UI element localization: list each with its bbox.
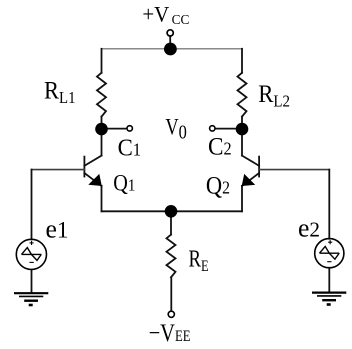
wire node C2 to collector Q2 [241,129,243,156]
node junction dot +Vcc rail [164,43,177,56]
wire right vertical: rail to RL2 [241,49,243,73]
label +Vcc [142,2,189,27]
label C1 [118,135,142,162]
transistor Q1 emitter diagonal [84,173,101,186]
transistor Q2 collector diagonal [242,156,259,166]
terminal circle C2 [210,126,215,131]
label Q2 [206,173,230,200]
label C2 [208,133,232,161]
transistor Q1 base bar [83,157,85,177]
resistor RL2 [238,73,247,117]
label RE [189,245,209,275]
svg-text:+VCC: +VCC [142,2,189,27]
svg-text:e2: e2 [298,213,320,242]
svg-text:C1: C1 [118,135,142,162]
wire RL2 to node C2 [241,117,243,129]
node junction dot emitter rail [165,205,178,218]
transistor Q1 collector diagonal [84,156,101,166]
terminal circle +Vcc [167,30,173,36]
resistor RL1 [97,73,106,117]
resistor RE [167,235,176,278]
svg-text:RE: RE [189,245,209,275]
svg-text:V0: V0 [165,114,186,144]
terminal circle C1 [127,126,132,131]
svg-text:RL1: RL1 [44,77,76,107]
svg-text:RL2: RL2 [258,81,290,111]
label RL2 [258,81,290,111]
wire Q2 emitter down [241,186,243,212]
source e2 [315,239,344,268]
label e1 [46,214,69,243]
svg-text:−VEE: −VEE [149,319,191,346]
wire top horizontal rail [102,48,243,50]
wire e1 to ground [31,270,33,293]
wire bottom horizontal rail [102,210,243,212]
wire Q1 emitter down [101,186,103,212]
wire C2 output stub [215,128,242,130]
wire Q2 base lead [259,169,329,171]
transistor Q2 emitter arrow [242,174,256,186]
ground e1 [14,293,48,305]
wire Q1 base lead [32,169,85,171]
wire left vertical: rail to RL1 [101,49,103,73]
svg-text:e1: e1 [46,214,69,243]
wire bottom node to RE [170,211,172,234]
wire node C1 to collector Q1 [101,129,103,156]
transistor Q2 base bar [258,157,260,177]
svg-text:C2: C2 [208,133,232,161]
label RL1 [44,77,76,107]
wire e2 to ground [328,268,330,293]
wire +Vcc terminal stub [169,37,171,49]
label e2 [298,213,320,242]
wire e1 branch vertical [31,170,33,240]
svg-text:Q1: Q1 [113,170,135,195]
source e1 [16,239,46,269]
label Vo [165,114,186,144]
ground e2 [312,293,346,305]
label Q1 [113,170,135,195]
svg-text:Q2: Q2 [206,173,230,200]
terminal circle -Vee [168,311,174,317]
transistor Q2 emitter diagonal [242,173,259,186]
transistor Q1 emitter arrow [88,174,102,186]
wire RE to -Vee terminal [170,277,172,311]
node junction dot C1 [95,123,108,136]
wire C1 output stub [102,128,127,130]
label -Vee [149,319,191,346]
node junction dot C2 [236,123,249,136]
wire e2 branch vertical [328,170,330,239]
wire RL1 to node C1 [101,117,103,129]
